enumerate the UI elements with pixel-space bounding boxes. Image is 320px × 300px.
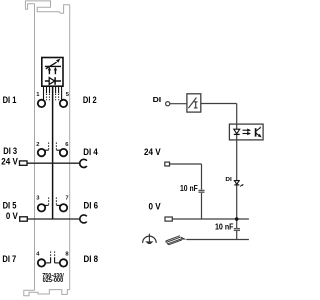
svg-text:7: 7 bbox=[65, 195, 68, 201]
svg-text:24 V: 24 V bbox=[144, 147, 161, 157]
svg-text:10 nF: 10 nF bbox=[215, 223, 234, 232]
svg-text:0 V: 0 V bbox=[6, 211, 19, 221]
svg-text:025-000: 025-000 bbox=[43, 278, 64, 284]
svg-text:10 nF: 10 nF bbox=[180, 184, 198, 193]
svg-text:DI 6: DI 6 bbox=[84, 201, 99, 211]
svg-text:DI: DI bbox=[225, 177, 232, 183]
svg-text:DI 3: DI 3 bbox=[3, 146, 17, 156]
svg-text:2: 2 bbox=[36, 142, 39, 148]
svg-text:DI 2: DI 2 bbox=[83, 95, 97, 105]
svg-text:DI 5: DI 5 bbox=[3, 201, 17, 211]
svg-text:24 V: 24 V bbox=[1, 157, 18, 167]
svg-text:DI 1: DI 1 bbox=[3, 95, 17, 105]
svg-text:DI 4: DI 4 bbox=[83, 147, 98, 157]
svg-text:DI 7: DI 7 bbox=[2, 254, 16, 264]
svg-text:DI: DI bbox=[153, 95, 162, 104]
svg-text:0 V: 0 V bbox=[149, 201, 162, 211]
svg-text:DI 8: DI 8 bbox=[84, 254, 99, 264]
